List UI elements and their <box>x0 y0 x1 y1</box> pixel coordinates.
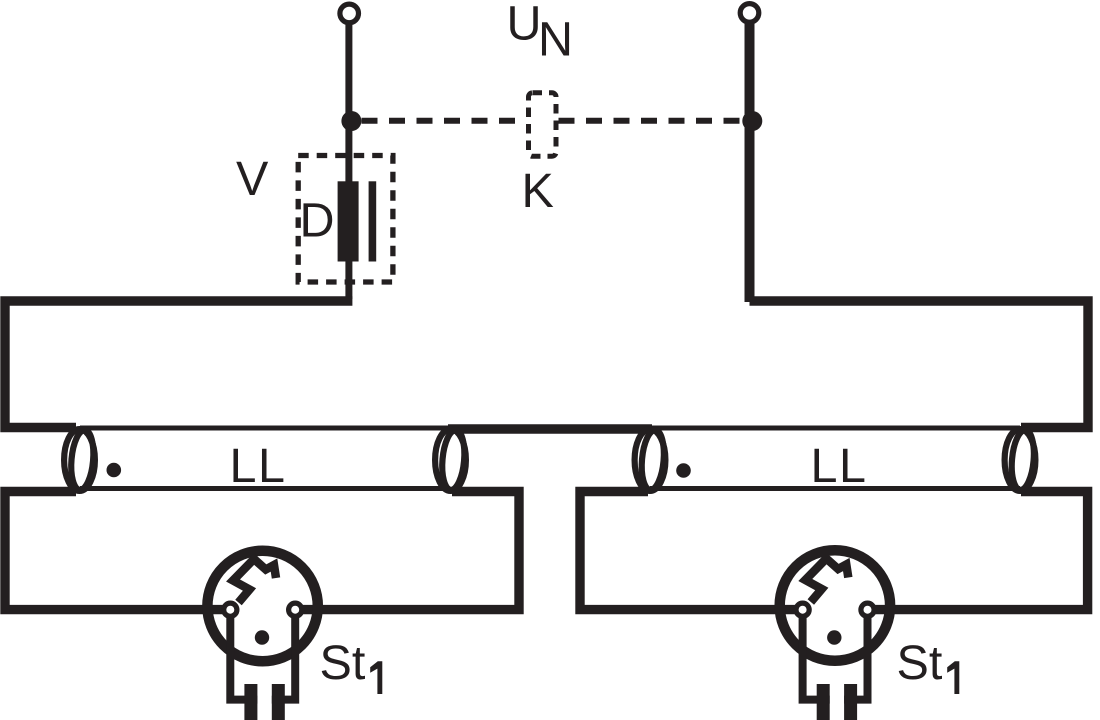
starter2 left pin <box>817 684 830 720</box>
svg-text:LL: LL <box>230 439 287 493</box>
svg-text:N: N <box>538 13 573 67</box>
ballast enclosure V dashed box <box>298 156 393 283</box>
inductor ballast D core bar <box>369 181 377 261</box>
node junction dot right <box>742 111 762 131</box>
starter1 right contact <box>289 603 302 616</box>
starter1 right pin <box>272 684 285 720</box>
lamp LL2 right cap <box>1005 429 1037 491</box>
starter2 left contact <box>796 603 809 616</box>
svg-text:K: K <box>522 164 554 218</box>
terminal right supply <box>740 4 759 23</box>
node junction dot left <box>341 111 361 131</box>
wire dashed control line right of K <box>559 118 745 124</box>
starter1 bimetal contact glyph <box>233 559 276 603</box>
starter1 center dot <box>255 630 269 644</box>
svg-text:St: St <box>320 636 366 690</box>
svg-text:U: U <box>507 0 542 51</box>
wire lamp2 left electrode to starter2 left contact <box>580 492 803 610</box>
svg-text:D: D <box>300 194 335 248</box>
inductor ballast D body <box>338 181 359 261</box>
wire dashed control line left of K <box>362 118 527 124</box>
switch contactor K dashed outline <box>529 93 557 157</box>
lamp LL2 left cap <box>635 429 667 491</box>
lamp LL1 electrode dot <box>107 463 122 478</box>
lamp LL2 electrode dot <box>676 463 691 478</box>
starter2 right contact <box>861 603 874 616</box>
svg-text:LL: LL <box>811 439 868 493</box>
svg-text:St: St <box>897 636 943 690</box>
starter2 bimetal contact glyph <box>805 559 848 603</box>
starter2 center dot <box>827 630 841 644</box>
wire right supply lead <box>745 22 755 302</box>
wire right supply to lamp2 right electrode <box>750 301 1089 428</box>
wire starter2 right contact to lamp2 right electrode <box>868 492 1088 610</box>
lamp LL1 left cap <box>64 429 96 491</box>
wire left supply lead <box>345 23 352 183</box>
starter1 left pin <box>244 684 257 720</box>
starter2 right lead and pin hook <box>844 612 867 700</box>
wire lamp1 left electrode to starter1 left contact <box>5 492 231 610</box>
starter St1 left <box>207 551 317 720</box>
lamp LL1 tube outline <box>80 428 450 489</box>
wire ballast to lamp1 left electrode <box>345 259 352 299</box>
lamp LL1 right cap <box>435 429 467 491</box>
wire starter1 right contact to lamp1 right electrode <box>295 492 519 610</box>
wire connector lamp1 to lamp2 <box>448 424 652 433</box>
starter1 left contact <box>224 603 237 616</box>
starter1 bulb circle <box>207 551 317 661</box>
svg-text:V: V <box>236 152 269 206</box>
starter1 left lead and pin hook <box>230 612 257 700</box>
starter1 right lead and pin hook <box>272 612 295 700</box>
starter2 left lead and pin hook <box>803 612 830 700</box>
wire loop left to lamp1 <box>5 301 352 428</box>
starter St1 right <box>780 550 890 720</box>
starter2 right pin <box>844 684 857 720</box>
terminal left supply <box>340 4 359 23</box>
lamp LL2 tube outline <box>650 428 1020 489</box>
starter2 bulb circle <box>780 550 890 660</box>
